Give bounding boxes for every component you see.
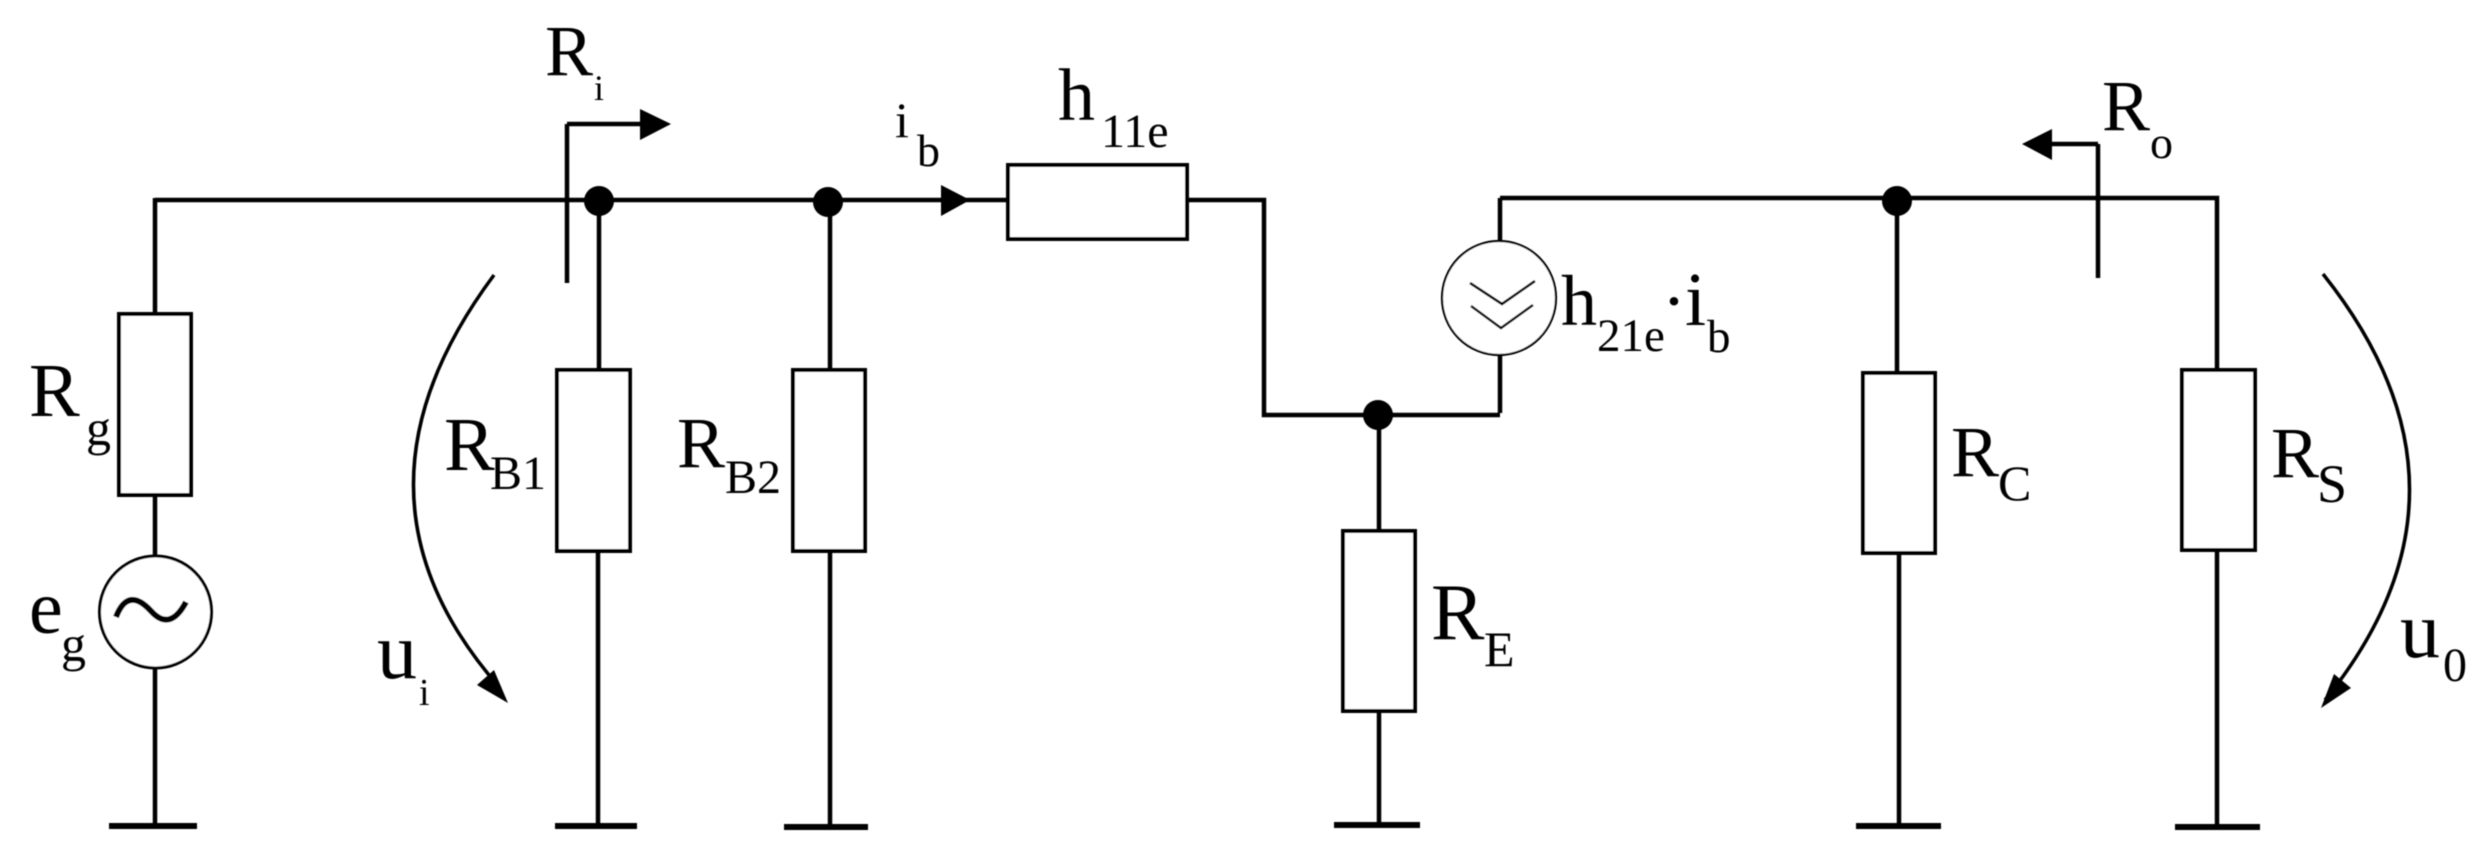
svg-text:R: R: [1431, 569, 1485, 657]
svg-text:o: o: [2150, 117, 2173, 168]
svg-text:R: R: [29, 349, 80, 433]
svg-text:R: R: [545, 11, 593, 91]
svg-text:E: E: [1484, 621, 1515, 677]
svg-text:B1: B1: [490, 447, 546, 500]
svg-text:21e: 21e: [1597, 310, 1665, 362]
svg-text:b: b: [1707, 311, 1731, 363]
svg-text:g: g: [61, 616, 86, 672]
svg-text:S: S: [2317, 454, 2347, 514]
svg-text:h: h: [1058, 55, 1095, 137]
svg-text:u: u: [377, 608, 417, 696]
svg-text:11e: 11e: [1101, 105, 1169, 158]
svg-text:R: R: [2271, 413, 2319, 493]
svg-text:e: e: [29, 566, 63, 650]
svg-text:R: R: [2102, 66, 2150, 146]
svg-text:R: R: [1951, 412, 1999, 492]
svg-text:h: h: [1561, 261, 1597, 341]
svg-text:i: i: [419, 672, 430, 714]
svg-text:·: ·: [1662, 261, 1686, 341]
svg-text:R: R: [444, 403, 495, 487]
svg-text:0: 0: [2443, 639, 2467, 692]
svg-text:i: i: [895, 92, 909, 148]
svg-text:i: i: [594, 68, 604, 108]
svg-text:R: R: [677, 403, 725, 483]
svg-text:u: u: [2400, 587, 2440, 675]
svg-text:g: g: [86, 400, 111, 456]
svg-text:b: b: [917, 125, 940, 176]
svg-text:C: C: [1998, 455, 2031, 511]
svg-text:B2: B2: [725, 451, 781, 504]
svg-text:i: i: [1685, 258, 1706, 342]
